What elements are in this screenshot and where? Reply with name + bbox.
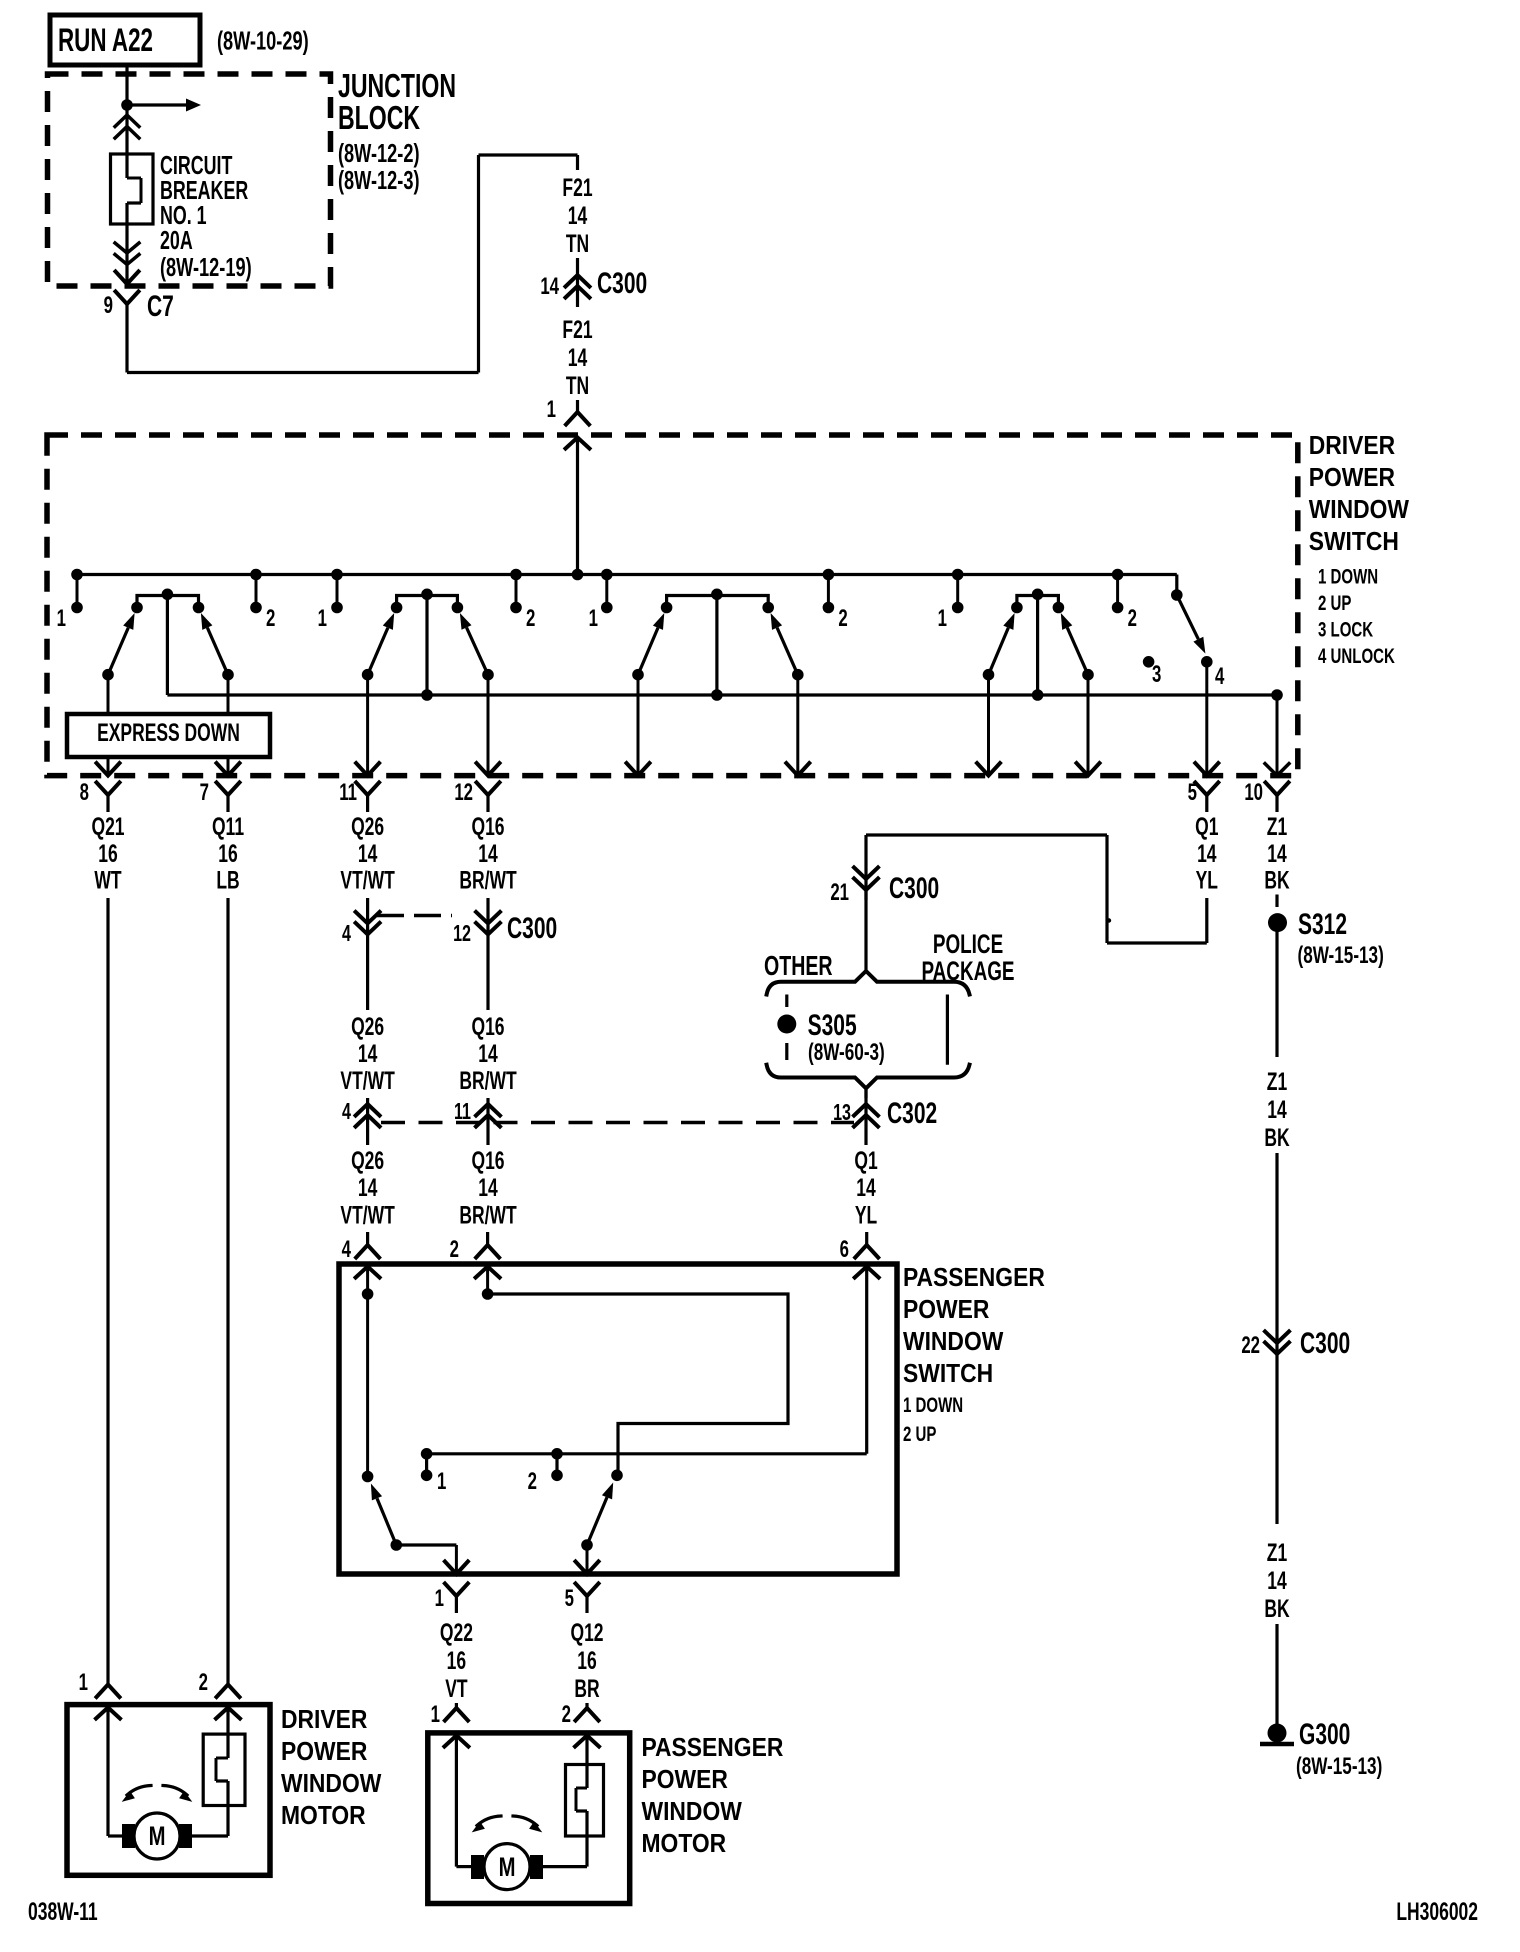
svg-text:C300: C300 [597, 268, 647, 300]
svg-text:S312: S312 [1298, 909, 1347, 941]
svg-text:2: 2 [526, 605, 535, 632]
svg-text:OTHER: OTHER [764, 951, 833, 982]
svg-text:BK: BK [1264, 865, 1290, 894]
svg-text:(8W-15-13): (8W-15-13) [1296, 1753, 1382, 1780]
svg-text:LH306002: LH306002 [1396, 1897, 1478, 1926]
svg-text:Q1: Q1 [854, 1146, 877, 1175]
svg-text:YL: YL [855, 1200, 877, 1229]
svg-text:SWITCH: SWITCH [1309, 528, 1399, 557]
svg-text:WINDOW: WINDOW [903, 1328, 1004, 1357]
svg-text:BR/WT: BR/WT [459, 1066, 516, 1095]
svg-text:VT/WT: VT/WT [340, 1200, 394, 1229]
svg-text:WT: WT [94, 865, 121, 894]
svg-text:Q12: Q12 [570, 1618, 603, 1647]
svg-text:PASSENGER: PASSENGER [903, 1264, 1045, 1293]
svg-text:1 DOWN: 1 DOWN [1318, 564, 1378, 588]
svg-text:(8W-60-3): (8W-60-3) [808, 1039, 885, 1066]
svg-text:14: 14 [358, 839, 377, 868]
svg-text:20A: 20A [160, 226, 193, 255]
svg-text:Q26: Q26 [351, 1012, 384, 1041]
svg-text:Q22: Q22 [440, 1618, 473, 1647]
svg-text:1: 1 [318, 605, 327, 632]
svg-text:YL: YL [1196, 865, 1218, 894]
svg-text:PASSENGER: PASSENGER [642, 1734, 784, 1763]
svg-text:(8W-12-19): (8W-12-19) [160, 253, 252, 282]
svg-text:2: 2 [838, 605, 847, 632]
svg-text:12: 12 [454, 779, 473, 806]
svg-text:14: 14 [1267, 1566, 1286, 1595]
svg-text:14: 14 [568, 201, 587, 230]
svg-text:2 UP: 2 UP [1318, 590, 1351, 614]
svg-text:5: 5 [565, 1585, 574, 1612]
svg-text:C7: C7 [147, 291, 174, 323]
svg-text:S305: S305 [808, 1010, 857, 1042]
svg-text:M: M [499, 1852, 516, 1883]
svg-text:2: 2 [1128, 605, 1137, 632]
svg-text:2: 2 [528, 1468, 537, 1495]
svg-text:POWER: POWER [642, 1766, 729, 1795]
svg-text:LB: LB [216, 865, 239, 894]
svg-text:WINDOW: WINDOW [642, 1798, 743, 1827]
svg-text:3: 3 [1152, 661, 1161, 688]
svg-text:C302: C302 [887, 1098, 937, 1130]
svg-text:Z1: Z1 [1267, 1067, 1287, 1096]
svg-text:16: 16 [577, 1646, 596, 1675]
svg-text:Z1: Z1 [1267, 812, 1287, 841]
svg-text:POWER: POWER [281, 1738, 368, 1767]
svg-text:14: 14 [478, 1039, 497, 1068]
svg-text:22: 22 [1241, 1332, 1260, 1359]
svg-text:10: 10 [1244, 779, 1263, 806]
svg-text:MOTOR: MOTOR [642, 1830, 727, 1859]
svg-text:PACKAGE: PACKAGE [921, 956, 1014, 986]
svg-text:14: 14 [358, 1039, 377, 1068]
svg-text:POWER: POWER [1309, 464, 1396, 493]
svg-text:TN: TN [566, 229, 589, 258]
svg-text:POLICE: POLICE [933, 929, 1003, 959]
svg-text:(8W-12-3): (8W-12-3) [338, 166, 420, 195]
svg-text:DRIVER: DRIVER [281, 1706, 368, 1735]
svg-text:3 LOCK: 3 LOCK [1318, 617, 1374, 641]
svg-text:5: 5 [1188, 779, 1197, 806]
svg-text:C300: C300 [1300, 1328, 1350, 1360]
svg-text:Q11: Q11 [212, 812, 244, 841]
svg-text:2: 2 [562, 1701, 571, 1728]
svg-text:038W-11: 038W-11 [28, 1897, 98, 1926]
svg-text:12: 12 [453, 921, 471, 946]
svg-text:C300: C300 [507, 913, 557, 945]
svg-text:BR/WT: BR/WT [459, 865, 516, 894]
svg-text:16: 16 [447, 1646, 466, 1675]
svg-text:1: 1 [79, 1669, 88, 1696]
svg-text:Q26: Q26 [351, 812, 384, 841]
svg-text:Q26: Q26 [351, 1146, 384, 1175]
svg-text:G300: G300 [1299, 1719, 1350, 1751]
svg-text:6: 6 [840, 1236, 849, 1263]
svg-text:14: 14 [478, 839, 497, 868]
svg-text:1: 1 [437, 1468, 446, 1495]
svg-text:4: 4 [342, 1236, 352, 1263]
svg-text:16: 16 [98, 839, 117, 868]
svg-text:POWER: POWER [903, 1296, 990, 1325]
svg-text:Q16: Q16 [471, 812, 504, 841]
svg-text:2 UP: 2 UP [903, 1421, 936, 1445]
svg-text:4: 4 [342, 1099, 351, 1124]
svg-text:2: 2 [199, 1669, 208, 1696]
svg-text:1 DOWN: 1 DOWN [903, 1392, 963, 1416]
svg-text:4: 4 [342, 921, 351, 946]
svg-text:VT/WT: VT/WT [340, 1066, 394, 1095]
svg-text:BLOCK: BLOCK [338, 100, 420, 137]
svg-text:14: 14 [478, 1173, 497, 1202]
svg-text:8: 8 [80, 779, 89, 806]
svg-text:WINDOW: WINDOW [1309, 496, 1410, 525]
svg-text:SWITCH: SWITCH [903, 1360, 993, 1389]
svg-text:4 UNLOCK: 4 UNLOCK [1318, 643, 1395, 667]
svg-text:1: 1 [589, 605, 598, 632]
svg-text:RUN A22: RUN A22 [58, 22, 153, 58]
svg-text:F21: F21 [562, 315, 592, 344]
svg-text:7: 7 [200, 779, 209, 806]
svg-text:Q16: Q16 [471, 1012, 504, 1041]
svg-text:Q16: Q16 [471, 1146, 504, 1175]
svg-text:BR: BR [574, 1674, 600, 1703]
svg-text:1: 1 [547, 396, 556, 423]
svg-text:4: 4 [1215, 663, 1225, 690]
svg-text:F21: F21 [562, 173, 592, 202]
svg-text:BR/WT: BR/WT [459, 1200, 516, 1229]
svg-text:11: 11 [339, 779, 357, 806]
svg-text:14: 14 [1267, 1095, 1286, 1124]
svg-text:1: 1 [435, 1585, 444, 1612]
svg-text:21: 21 [830, 879, 849, 906]
svg-text:16: 16 [218, 839, 237, 868]
svg-text:BK: BK [1264, 1594, 1290, 1623]
svg-text:14: 14 [568, 343, 587, 372]
svg-text:9: 9 [104, 292, 113, 319]
svg-text:14: 14 [358, 1173, 377, 1202]
svg-text:1: 1 [57, 605, 66, 632]
svg-text:1: 1 [938, 605, 947, 632]
svg-text:14: 14 [1197, 839, 1216, 868]
svg-text:(8W-10-29): (8W-10-29) [217, 26, 309, 55]
svg-text:EXPRESS DOWN: EXPRESS DOWN [97, 718, 240, 747]
svg-text:M: M [149, 1821, 166, 1852]
svg-text:(8W-15-13): (8W-15-13) [1298, 942, 1384, 969]
svg-text:VT/WT: VT/WT [340, 865, 394, 894]
svg-text:Q21: Q21 [91, 812, 124, 841]
svg-text:TN: TN [566, 371, 589, 400]
svg-text:Z1: Z1 [1267, 1538, 1287, 1567]
svg-text:14: 14 [540, 273, 559, 300]
svg-text:14: 14 [1267, 839, 1286, 868]
svg-text:(8W-12-2): (8W-12-2) [338, 139, 420, 168]
svg-text:Q1: Q1 [1195, 812, 1218, 841]
svg-text:C300: C300 [889, 873, 939, 905]
svg-text:WINDOW: WINDOW [281, 1770, 382, 1799]
svg-text:BK: BK [1264, 1123, 1290, 1152]
svg-text:VT: VT [445, 1674, 467, 1703]
svg-text:14: 14 [856, 1173, 875, 1202]
svg-text:MOTOR: MOTOR [281, 1802, 366, 1831]
svg-text:DRIVER: DRIVER [1309, 432, 1396, 461]
svg-text:2: 2 [450, 1236, 459, 1263]
svg-text:2: 2 [266, 605, 275, 632]
svg-text:1: 1 [431, 1701, 440, 1728]
